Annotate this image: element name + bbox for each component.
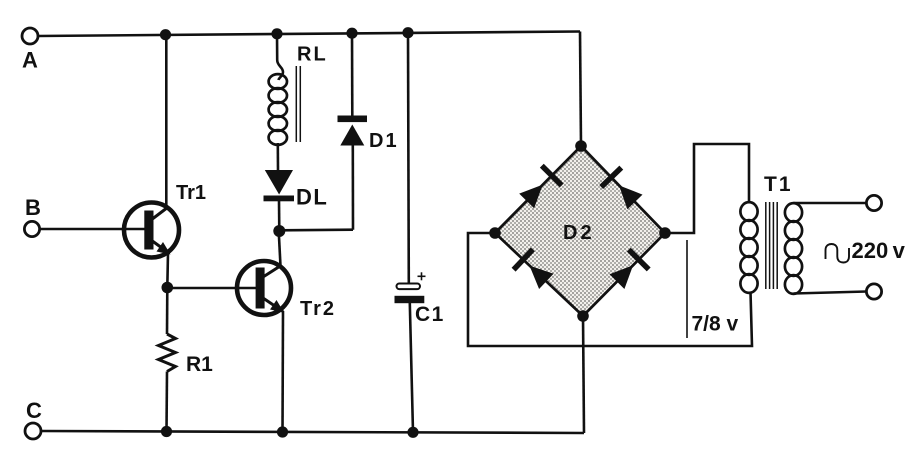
wire top rail to RL coil (277, 34, 283, 80)
wire Tr1 emitter down to node (166, 253, 169, 288)
svg-text:Tr2: Tr2 (300, 298, 336, 320)
bridge diode D2 lower-right (610, 250, 649, 289)
wire primary top to terminal (794, 202, 867, 205)
svg-text:A: A (22, 48, 38, 73)
bridge diode D2 upper-left (519, 166, 562, 209)
svg-text:RL: RL (297, 44, 328, 66)
wire R1 to bottom rail (165, 372, 168, 432)
svg-text:D2: D2 (563, 222, 595, 244)
resistor R1 (159, 334, 214, 376)
node Tr1 emitter / R1 / Tr2 base (162, 282, 174, 294)
svg-text:Tr1: Tr1 (176, 182, 206, 204)
wire terminal B to Tr1 base (40, 228, 146, 231)
wire node to R1 (166, 288, 169, 335)
node bottom rail / Tr2 emitter junction (277, 426, 288, 437)
svg-text:T1: T1 (764, 173, 793, 196)
node bottom rail / R1 junction (161, 426, 172, 437)
node bridge bottom (577, 310, 589, 322)
node bridge right (659, 227, 671, 239)
svg-text:R1: R1 (186, 353, 213, 376)
wire C1 to bottom rail (410, 303, 413, 432)
terminal A (22, 28, 38, 73)
svg-text:B: B (25, 195, 41, 220)
node DL / D1 / Tr2 collector (273, 225, 285, 237)
svg-text:C: C (26, 398, 42, 423)
bridge diode D2 lower-left (514, 249, 554, 289)
relay core lines RL (296, 66, 300, 142)
bridge rectifier D2 body (495, 146, 665, 316)
terminal 220v bottom (866, 284, 881, 299)
wire bridge left to transformer secondary bottom (468, 233, 752, 346)
terminal B (24, 195, 40, 237)
AC waveform symbol (826, 244, 850, 263)
transformer T1 core (766, 202, 777, 289)
wire Tr2 emitter to bottom rail (281, 311, 284, 432)
transformer T1 secondary winding (740, 202, 757, 293)
wire node to D1 anode (279, 228, 353, 231)
diode DL (264, 170, 329, 210)
node bridge left (489, 227, 501, 239)
wire RL coil to DL (276, 143, 279, 170)
wire bridge right to transformer secondary top (665, 144, 749, 233)
capacitor C1 (395, 272, 445, 326)
inductor relay coil RL (269, 74, 287, 145)
node bottom rail / C1 junction (407, 427, 418, 438)
wire DL to node (278, 201, 281, 231)
7/8 v indicator line (686, 240, 688, 338)
wire node to Tr2 base (167, 287, 257, 290)
terminal 220v top (866, 195, 881, 210)
transistor Tr1 (124, 182, 206, 258)
wire top rail A (38, 32, 580, 37)
wire bottom rail C (41, 431, 584, 433)
wire top rail to D1 cathode (351, 33, 354, 116)
svg-text:7/8 v: 7/8 v (692, 313, 739, 336)
diode D1 (338, 116, 399, 153)
node top rail / D1 junction (346, 28, 357, 39)
node top rail / C1 junction (402, 27, 413, 38)
node top rail / Tr1 collector junction (160, 29, 171, 40)
transistor Tr2 (237, 261, 336, 320)
svg-text:DL: DL (296, 185, 328, 210)
svg-text:C1: C1 (415, 303, 445, 326)
wire Tr2 collector up to DL node (279, 231, 281, 266)
wire bridge bottom to bottom rail (583, 316, 584, 433)
terminal C (25, 398, 42, 439)
wire Tr1 collector to top rail (165, 35, 168, 209)
wire top rail to C1 (407, 33, 410, 284)
wire top rail to bridge top (580, 32, 581, 147)
transformer T1 primary winding (785, 203, 802, 294)
bridge diode D2 upper-right (601, 168, 642, 210)
node bridge top (575, 140, 587, 152)
wire primary bottom to terminal (794, 292, 867, 294)
node top rail / RL junction (271, 28, 282, 39)
svg-text:D1: D1 (369, 130, 399, 152)
wire D1 anode down (351, 145, 354, 230)
svg-text:220 v: 220 v (852, 238, 906, 263)
